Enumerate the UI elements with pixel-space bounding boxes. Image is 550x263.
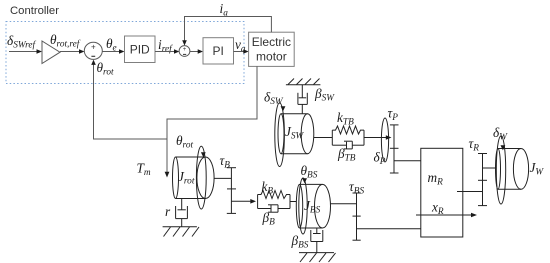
svg-text:θrot: θrot	[97, 60, 114, 78]
rack mass m_R box	[421, 148, 463, 237]
spring k_TB / damper beta_TB parallel combo	[332, 126, 364, 149]
damper beta_SW	[298, 85, 307, 114]
svg-text:Jrot: Jrot	[178, 169, 195, 187]
svg-text:+: +	[91, 42, 96, 51]
inertia J_BS cylinder	[296, 184, 330, 228]
svg-text:Tm: Tm	[137, 161, 151, 179]
controller dashed box	[6, 22, 244, 84]
rack tau_R	[478, 154, 487, 206]
PID block	[125, 36, 156, 63]
wire x_R arrow	[416, 213, 477, 218]
wire rack tau_P to m_R box	[394, 160, 421, 162]
svg-text:kTB: kTB	[337, 110, 354, 128]
rotation arrow on J_SW	[275, 103, 286, 167]
wire input arrow to gain	[9, 49, 42, 54]
electric motor block	[249, 32, 295, 66]
svg-text:Controller: Controller	[10, 5, 59, 17]
svg-text:δSWref: δSWref	[7, 33, 36, 51]
svg-text:δW: δW	[493, 125, 508, 143]
wire sum1 to PID	[102, 49, 124, 54]
svg-text:τR: τR	[469, 136, 480, 154]
svg-text:τBS: τBS	[349, 179, 364, 197]
inertia J_rot cylinder	[173, 157, 215, 199]
svg-text:θe: θe	[106, 36, 117, 54]
svg-text:JW: JW	[530, 160, 545, 178]
svg-text:δP: δP	[374, 150, 386, 168]
svg-text:ia: ia	[220, 1, 229, 19]
svg-text:θrot: θrot	[176, 133, 193, 151]
wire gain to sum1	[60, 49, 85, 54]
svg-text:kB: kB	[262, 179, 274, 197]
svg-text:JBS: JBS	[304, 198, 321, 216]
rotation arrow on J_W	[496, 136, 505, 204]
wire rack tau_R to J_W	[483, 167, 496, 169]
svg-text:motor: motor	[256, 50, 287, 64]
svg-text:PI: PI	[213, 44, 224, 58]
wire rack to spring k_B with arrow	[231, 199, 256, 204]
wire PID to sum2	[155, 49, 179, 54]
wire rack tau_BS to m_R box	[357, 228, 421, 230]
damper r below J_rot	[176, 199, 188, 227]
wire motor bottom to T_m arrow	[165, 66, 257, 177]
wire combo to J_BS	[290, 201, 297, 203]
wire k_TB to pinion with arrow	[364, 135, 392, 140]
svg-text:βBS: βBS	[291, 233, 309, 251]
PI block	[203, 38, 234, 64]
svg-text:r: r	[165, 204, 171, 219]
wire J_rot shaft to rack tau_B	[214, 177, 231, 179]
rotation arrow delta_P	[381, 118, 388, 162]
rotation arrow on J_BS	[299, 178, 307, 234]
wire J_BS shaft to rack tau_BS	[331, 203, 357, 205]
svg-text:βSW: βSW	[314, 86, 335, 104]
inertia J_W cylinder	[496, 149, 529, 190]
wire m_R to rack tau_R	[457, 191, 483, 193]
rotation arrow on J_rot	[196, 146, 206, 209]
ground under r	[163, 227, 199, 237]
summing junction S2	[179, 46, 190, 57]
summing junction S1	[84, 42, 102, 59]
wire i_a feedback motor top to sum2	[182, 17, 271, 46]
rack tau_B	[227, 168, 236, 214]
damper beta_BS below J_BS	[311, 228, 323, 253]
svg-text:τP: τP	[388, 106, 399, 124]
rack tau_P	[390, 125, 399, 173]
rack tau_BS	[353, 193, 361, 240]
inertia J_SW cylinder	[278, 114, 314, 154]
svg-text:+: +	[183, 47, 187, 53]
svg-text:θrot,ref: θrot,ref	[50, 32, 81, 50]
wire theta_rot feedback to sum1	[91, 60, 167, 139]
ground under beta_BS	[299, 253, 336, 262]
wire J_SW to spring k_TB	[314, 137, 333, 139]
spring k_B / damper beta_B parallel combo	[258, 191, 290, 213]
svg-text:τB: τB	[220, 153, 231, 171]
svg-text:Electric: Electric	[252, 35, 291, 49]
wire PI to motor	[234, 49, 249, 54]
svg-text:PID: PID	[130, 43, 150, 57]
wire sum2 to PI	[190, 49, 203, 54]
ceiling hatch above beta_SW	[286, 79, 321, 85]
gain triangle	[42, 41, 60, 64]
